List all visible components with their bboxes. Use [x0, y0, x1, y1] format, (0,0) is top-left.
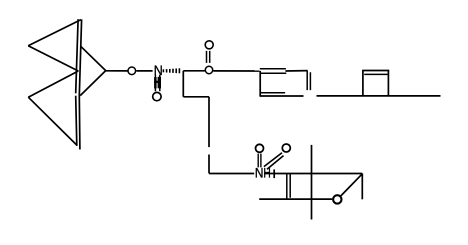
bond to NH	[209, 173, 254, 175]
N=O double bond (vertical under N)	[155, 75, 159, 92]
side chain long vertical lower segment	[208, 155, 210, 174]
phenyl right double pair	[307, 71, 310, 91]
C9 triangle upper edge	[81, 46, 106, 70]
bond C9 to ether O	[106, 70, 128, 72]
top triangle bottom edge	[28, 46, 78, 71]
atom O ring	[333, 195, 341, 203]
atom label H under N (bold composite)	[154, 77, 161, 89]
ring left double bond pair	[287, 174, 290, 200]
atom O below N	[153, 92, 161, 100]
ring bottom edge	[259, 198, 332, 200]
fluorene right vertical line	[79, 19, 81, 149]
fluorene left vertical line (with gap)	[76, 19, 78, 146]
bond O to N	[136, 70, 152, 72]
methyl tick right of NH	[273, 169, 275, 178]
bottom triangle bottom edge	[28, 97, 77, 145]
svg-text:N: N	[255, 165, 264, 181]
phenyl left vertical	[259, 71, 261, 96]
atom O above NH	[256, 144, 264, 152]
tolyl square top edge	[362, 70, 389, 72]
long horizontal bond (tolyl chain)	[317, 95, 441, 97]
side chain C-alpha down	[182, 71, 184, 97]
carbonyl C=O double bond	[207, 51, 210, 63]
atom O upper right of NH	[282, 144, 290, 152]
diagonal double bond NH to O	[264, 153, 284, 170]
top triangle top edge	[28, 20, 81, 46]
hashed wedge bond N to C-alpha	[163, 68, 179, 73]
side chain horizontal	[183, 96, 209, 98]
bond C-alpha to ester O	[183, 70, 205, 72]
atom O carbonyl	[205, 41, 213, 49]
side chain long vertical upper segment	[208, 97, 210, 147]
bond NH to ring	[264, 173, 362, 175]
quaternary C vertical (methyls)	[311, 145, 313, 220]
tolyl square right vertical	[387, 70, 389, 96]
bond ring O to apex diagonal	[341, 174, 363, 196]
phenyl bottom edge	[260, 95, 304, 97]
phenyl bottom inner double	[261, 92, 285, 94]
tolyl square inner top double	[364, 73, 387, 75]
right vertical of O-ring	[361, 174, 363, 200]
N=O double bond above NH	[258, 154, 261, 168]
svg-text:H: H	[263, 165, 270, 181]
tolyl square left vertical	[362, 70, 364, 96]
phenyl top double bond pair	[260, 69, 287, 74]
bond ester O to phenyl	[213, 70, 259, 72]
bottom triangle top edge	[28, 71, 78, 97]
phenyl top right single	[285, 70, 307, 72]
atom O ester	[205, 66, 212, 73]
C9 triangle lower edge	[80, 71, 106, 96]
svg-text:N: N	[154, 62, 163, 78]
atom O ether	[128, 67, 136, 75]
